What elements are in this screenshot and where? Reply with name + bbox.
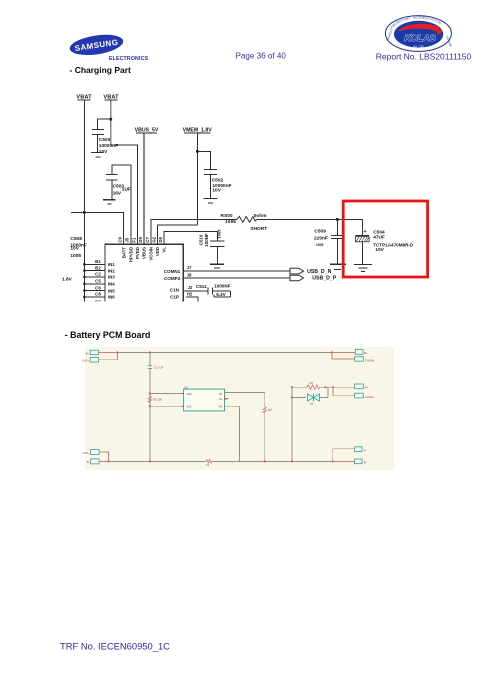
- svg-text:COMP2: COMP2: [164, 276, 181, 281]
- svg-text:CO: CO: [219, 398, 223, 401]
- wire to B- out pad: [333, 460, 355, 462]
- node C509 junction: [336, 218, 339, 221]
- wire C500 branch: [98, 119, 111, 129]
- wire VBAT2 to PVDD pin: [111, 145, 138, 244]
- capacitor C510: [198, 229, 224, 265]
- svg-text:TRF No. IECEN60950_1C: TRF No. IECEN60950_1C: [60, 640, 170, 651]
- connector pad B+ out: [355, 349, 368, 355]
- connector USB_D_P port: [290, 275, 304, 281]
- svg-text:1UF: 1UF: [122, 187, 131, 193]
- svg-text:P+: P+: [365, 386, 369, 390]
- svg-text:R2 100: R2 100: [153, 398, 162, 402]
- svg-text:C502: C502: [212, 177, 224, 183]
- svg-text:IN2: IN2: [108, 268, 115, 273]
- svg-text:- Charging Part: - Charging Part: [70, 65, 132, 75]
- wire R5 to bottom bus: [264, 413, 266, 462]
- wire to P+ pad: [333, 386, 355, 388]
- svg-text:D8: D8: [158, 236, 163, 242]
- svg-text:F1: F1: [131, 237, 136, 243]
- node U1 pin1 junction: [149, 393, 151, 395]
- svg-text:SHORT: SHORT: [250, 226, 267, 232]
- svg-text:G2: G2: [151, 236, 156, 242]
- wire B+ stub: [99, 351, 118, 353]
- svg-text:D7: D7: [95, 299, 101, 304]
- svg-text:VM: VM: [219, 405, 223, 408]
- svg-text:C6: C6: [95, 285, 101, 290]
- svg-text:10V: 10V: [70, 246, 79, 252]
- svg-text:IN4: IN4: [108, 282, 115, 287]
- svg-text:COMN1: COMN1: [164, 269, 181, 274]
- connector pad CHGB+: [355, 357, 375, 363]
- ground C500: [91, 152, 103, 157]
- capacitor C508 labels: [70, 236, 87, 259]
- svg-text:Q1: Q1: [310, 401, 314, 405]
- svg-text:J7: J7: [187, 265, 192, 270]
- svg-text:BATT: BATT: [121, 247, 126, 259]
- wire IN3 row (pin C2): [83, 272, 115, 280]
- svg-text:J5: J5: [125, 237, 130, 242]
- svg-text:R6: R6: [310, 381, 314, 385]
- wire to P- pad: [333, 449, 355, 462]
- wire C1N to C511: [183, 290, 208, 292]
- svg-text:Report No. LBS20111150: Report No. LBS20111150: [376, 51, 472, 61]
- wire to CHGB+ pad: [332, 352, 355, 359]
- node bottom junction 4: [291, 461, 293, 463]
- svg-text:CHG+: CHG+: [82, 359, 90, 363]
- svg-text:VDD: VDD: [155, 247, 160, 256]
- wire U1 DO to R5 column: [225, 393, 265, 407]
- node R6 left junction: [291, 386, 293, 388]
- capacitor C502: [204, 169, 231, 198]
- schematic sheet background: [85, 347, 394, 470]
- node bottom junction 1: [108, 461, 110, 463]
- wire VL pin to C510: [164, 231, 217, 244]
- node top junction 1: [117, 352, 119, 354]
- svg-text:B-: B-: [364, 461, 367, 465]
- connector USB_D_N port: [290, 268, 304, 274]
- svg-text:B1: B1: [95, 259, 101, 264]
- wire C502 branch: [197, 151, 210, 169]
- wire to CHGP+ pad: [333, 387, 355, 395]
- svg-text:1005: 1005: [70, 253, 81, 259]
- ground C509: [330, 264, 346, 269]
- wire BATT feed: [71, 212, 123, 244]
- svg-text:6.3V: 6.3V: [216, 292, 226, 297]
- svg-text:16V: 16V: [113, 191, 122, 197]
- capacitor C1: [148, 365, 164, 369]
- wire Q1 row: [292, 387, 328, 397]
- svg-text:D9: D9: [138, 236, 143, 242]
- svg-text:C7: C7: [145, 236, 150, 242]
- svg-text:+: +: [364, 229, 367, 235]
- net VBAT 2 label: [103, 95, 119, 101]
- svg-text:C509: C509: [314, 229, 326, 235]
- svg-text:ELECTRONICS: ELECTRONICS: [109, 56, 149, 62]
- wire IN5 row (pin C6): [83, 285, 115, 293]
- svg-text:10V: 10V: [212, 188, 221, 194]
- op-amp U500 charging IC body: [105, 244, 183, 302]
- svg-text:1000NF: 1000NF: [214, 283, 231, 288]
- Samsung logo ellipse: [68, 32, 124, 59]
- svg-text:C511: C511: [196, 284, 207, 289]
- svg-text:F1: F1: [206, 463, 210, 467]
- node VMEM/C502 junction: [196, 150, 199, 153]
- net VMEM_1.8V label: [183, 128, 213, 134]
- svg-text:10V: 10V: [375, 247, 384, 253]
- node top junction 2: [149, 352, 151, 354]
- wire VBAT2 vertical (thick): [110, 100, 112, 144]
- connector pad B-: [87, 459, 99, 464]
- connector pad CHG-: [83, 450, 100, 455]
- ground C502: [204, 198, 218, 202]
- svg-text:220nF: 220nF: [314, 235, 328, 241]
- svg-text:CHGP+: CHGP+: [365, 395, 375, 399]
- wire RS00 to C504: [257, 218, 363, 220]
- resistor R2: [148, 396, 162, 402]
- svg-text:1.8V: 1.8V: [62, 276, 73, 282]
- svg-text:10000nF: 10000nF: [99, 143, 118, 149]
- capacitor C504 (tantalum): [355, 219, 414, 264]
- connector pad CHGP+: [355, 393, 375, 399]
- wire to U1 pin1: [150, 393, 184, 395]
- svg-text:CHGB+: CHGB+: [365, 358, 375, 362]
- svg-text:C510: C510: [198, 234, 203, 245]
- resistor R6: [307, 381, 320, 389]
- resistor F1 sense: [206, 460, 212, 468]
- svg-text:TCTP1A470M8R-D: TCTP1A470M8R-D: [373, 242, 414, 247]
- node Q1 left junction: [291, 397, 293, 399]
- svg-text:B2: B2: [95, 265, 101, 270]
- op-amp U1 protection IC: [181, 385, 229, 411]
- ground C504: [354, 264, 372, 271]
- svg-text:C8: C8: [95, 292, 101, 297]
- node VBAT2/C500 junction: [110, 118, 113, 121]
- capacitor C503: [106, 175, 131, 200]
- connector pad P+: [355, 384, 369, 390]
- wire B- stub: [99, 460, 108, 462]
- svg-text:P-: P-: [364, 448, 367, 452]
- wire IN4 row (pin C5): [83, 279, 115, 287]
- resistor R5: [263, 407, 272, 413]
- svg-text:RS00: RS00: [221, 213, 233, 219]
- svg-text:VBUS: VBUS: [142, 247, 147, 259]
- svg-text:VCOIN: VCOIN: [149, 247, 154, 261]
- node bottom junction 5: [332, 461, 334, 463]
- wire COMN1 to USB_D_N: [183, 270, 290, 272]
- svg-text:HPVDD: HPVDD: [129, 247, 134, 262]
- net VBUS_5V label: [135, 128, 159, 134]
- wire to B+ out pad: [332, 351, 355, 353]
- svg-text:- Battery PCM Board: - Battery PCM Board: [65, 330, 151, 340]
- svg-text:100NF: 100NF: [204, 233, 209, 247]
- transistor Q1 (dual FET): [308, 394, 320, 406]
- svg-text:DO: DO: [219, 393, 223, 396]
- resistor RS00: [221, 213, 268, 232]
- svg-text:IN3: IN3: [108, 275, 115, 280]
- node R6 right junction: [325, 386, 327, 388]
- wire VMEM to VDD pin: [158, 225, 198, 244]
- svg-text:U1: U1: [184, 385, 188, 389]
- wire CHG- stub: [99, 452, 108, 461]
- svg-text:C500: C500: [99, 137, 111, 143]
- wire left bus vertical: [149, 352, 151, 461]
- svg-text:C1P: C1P: [170, 294, 179, 299]
- connector pad B- out: [355, 459, 367, 465]
- svg-text:47UF: 47UF: [373, 235, 385, 241]
- svg-text:1005: 1005: [225, 219, 236, 225]
- svg-text:IN1: IN1: [108, 262, 115, 267]
- wire C1P stub: [186, 297, 198, 302]
- net VBAT 1 label: [76, 95, 92, 101]
- svg-text:C1 1UF: C1 1UF: [154, 365, 164, 369]
- node VBAT1/BATT junction: [83, 211, 86, 214]
- wire IN6 row (pin C8): [83, 292, 115, 300]
- ground C510: [210, 264, 224, 268]
- svg-text:C9: C9: [118, 236, 123, 242]
- svg-text:1005: 1005: [316, 243, 324, 247]
- svg-text:KOLAS: KOLAS: [404, 32, 436, 43]
- svg-text:0ohm: 0ohm: [254, 213, 267, 219]
- wire VBAT1 bus vertical: [83, 100, 85, 301]
- wire VMEM_1.8V vertical: [196, 134, 198, 226]
- svg-text:B+: B+: [364, 351, 368, 355]
- svg-text:H2: H2: [187, 292, 193, 297]
- wire right bus vertical: [291, 387, 293, 461]
- node top junction 3: [331, 352, 333, 354]
- wire R6 row: [292, 386, 355, 388]
- svg-text:1005: 1005: [217, 229, 222, 239]
- wire to U1 pin2: [150, 405, 184, 407]
- svg-text:Page 36 of 40: Page 36 of 40: [236, 52, 287, 61]
- wire IN2 row (pin B2): [83, 265, 115, 273]
- wire U1 VM to bottom bus: [225, 406, 240, 461]
- svg-text:NO : 125: NO : 125: [413, 44, 424, 48]
- svg-text:J8: J8: [187, 272, 192, 277]
- svg-text:R5: R5: [268, 408, 272, 412]
- wire bottom bus: [109, 460, 333, 462]
- svg-text:USB_D_N: USB_D_N: [307, 269, 331, 275]
- wire VBUS_5V vertical (thick): [143, 134, 145, 245]
- connector pad B+: [86, 350, 99, 355]
- svg-text:C5: C5: [95, 279, 101, 284]
- svg-text:C508: C508: [70, 236, 82, 242]
- connector pad CHG+: [82, 358, 99, 363]
- svg-text:VSS: VSS: [187, 405, 192, 408]
- wire top bus: [117, 351, 332, 353]
- highlight box (red): [343, 201, 427, 277]
- svg-text:B+: B+: [86, 351, 90, 355]
- ground C503: [103, 200, 115, 204]
- node P+ branch junction: [332, 386, 334, 388]
- wire COMP2 to USB_D_P: [183, 277, 290, 279]
- svg-text:IN6: IN6: [108, 295, 115, 300]
- svg-text:VDD: VDD: [187, 393, 192, 396]
- node bottom junction 3: [264, 461, 266, 463]
- svg-text:VL: VL: [162, 247, 167, 253]
- KOLAS logo: [385, 16, 453, 52]
- connector pad P-: [355, 447, 367, 453]
- node U1 pin2 junction: [149, 405, 151, 407]
- wire VCOIN net to RS00: [151, 219, 237, 244]
- svg-text:J2: J2: [188, 285, 193, 290]
- svg-text:C2: C2: [95, 272, 101, 277]
- svg-text:PVDD: PVDD: [135, 247, 140, 259]
- capacitor C511: [196, 283, 231, 297]
- wire C503 loop top: [112, 165, 131, 245]
- wire IN1 row (pin B1): [83, 259, 115, 267]
- svg-text:USB_D_P: USB_D_P: [312, 276, 336, 282]
- svg-text:B-: B-: [87, 460, 90, 464]
- svg-text:C1N: C1N: [170, 287, 180, 292]
- capacitor C509: [314, 221, 345, 265]
- capacitor C500: [92, 129, 118, 154]
- wire CHG+ stub: [99, 352, 118, 359]
- svg-text:CHG-: CHG-: [83, 451, 90, 455]
- svg-text:IN5: IN5: [108, 288, 115, 293]
- node bottom junction 2: [149, 461, 151, 463]
